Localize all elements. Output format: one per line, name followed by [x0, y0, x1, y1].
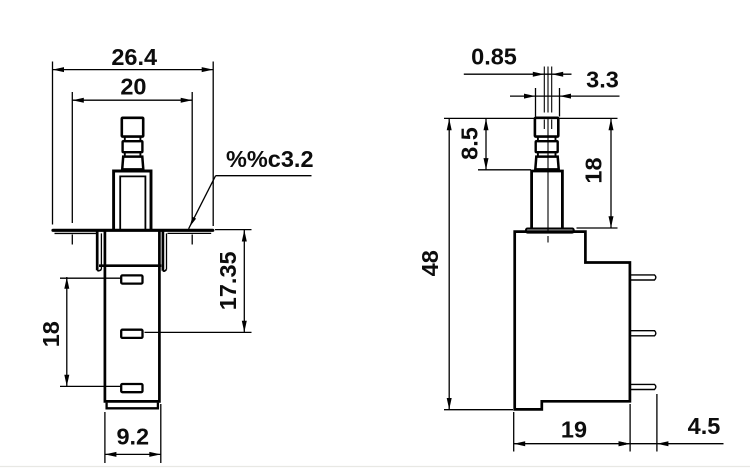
right view: shaft: [532, 171, 563, 229]
svg-text:19: 19: [561, 416, 587, 442]
dimension 17.35: [243, 230, 245, 332]
left view: plunger neck groove 1: [125, 137, 141, 142]
right view: terminal pin 1: [630, 275, 656, 280]
dimension 19: [514, 443, 630, 445]
left view: plunger cap: [122, 118, 143, 137]
dimension 3.3 extension lines: [535, 88, 537, 117]
mounting hole centerline right: [191, 235, 193, 245]
left view: mounting flange top edge: [53, 229, 213, 232]
dimension 48 extension line bottom: [444, 409, 513, 411]
svg-text:4.5: 4.5: [688, 413, 721, 439]
mounting hole centerline left: [71, 235, 73, 245]
left view: guide housing outer: [114, 171, 151, 230]
svg-text:3.3: 3.3: [586, 67, 619, 93]
left view: plunger middle band: [123, 141, 143, 152]
dimension 9.2: [105, 453, 161, 455]
faint page bottom border: [0, 466, 750, 468]
left view: flange sheet underside right: [168, 232, 212, 234]
svg-text:18: 18: [581, 157, 607, 183]
svg-text:17.35: 17.35: [215, 251, 241, 310]
shared top extension line (knob top): [444, 117, 535, 119]
left view: plunger lower stem: [122, 157, 143, 170]
dimension 26.4 extension lines: [52, 62, 54, 225]
left view: vent slot 2: [121, 330, 142, 338]
svg-text:%%c3.2: %%c3.2: [226, 146, 314, 172]
right view: terminal pin 3: [630, 384, 656, 389]
left view: body upper section bottom edge: [99, 264, 161, 267]
dimension 3.3: [510, 95, 620, 97]
right view: vertical centerline: [547, 67, 549, 113]
leader and label %%c3.2 (hole diameter): [189, 176, 216, 229]
svg-text:9.2: 9.2: [116, 424, 149, 450]
dimension 18 (slot pitch): [66, 277, 68, 387]
left view: guide housing inner wall: [120, 176, 145, 230]
dimension 26.4: [53, 69, 214, 71]
svg-text:8.5: 8.5: [457, 127, 483, 160]
svg-text:18: 18: [38, 321, 64, 347]
right view: body outline with step and foot: [515, 232, 630, 410]
left view: body outline: [105, 232, 159, 402]
right view: terminal pin 2: [630, 331, 656, 336]
dimension 20: [72, 99, 192, 101]
left view: vent slot 1: [121, 275, 142, 283]
dimension 4.5 extension line: [656, 394, 658, 452]
right view: plunger neck groove 2: [538, 152, 556, 156]
right view: slot lines / 0.85 extension lines: [543, 67, 545, 113]
right view: plunger neck groove 1: [538, 137, 556, 142]
left view: body bottom cap: [107, 403, 158, 409]
dimension 18 (right view): [610, 119, 612, 229]
right view: plunger middle band: [536, 141, 558, 152]
right view: plunger cap: [535, 118, 558, 137]
dimension 4.5: [630, 443, 723, 445]
dimension 9.2 extension lines: [104, 412, 106, 463]
dimension 18 extension line bottom: [577, 227, 618, 229]
dimension 19 extension lines: [513, 412, 515, 452]
left view: right bracket tab: [162, 231, 165, 271]
dimension 8.5 extension line bottom: [478, 169, 531, 171]
dimension 48: [448, 119, 450, 410]
svg-text:48: 48: [417, 250, 443, 276]
dimension 18 (slot pitch) extension lines: [60, 277, 121, 279]
dimension 20 extension lines: [71, 92, 73, 223]
left view: left bracket tab: [96, 231, 99, 270]
svg-text:26.4: 26.4: [111, 44, 157, 70]
right view: flange plate edge-on: [526, 229, 574, 233]
right view: plunger lower stem: [535, 157, 558, 170]
left view: vent slot 3: [121, 384, 142, 392]
dimension 17.35 extension lines: [215, 229, 252, 231]
dimension 8.5: [485, 119, 487, 170]
left view: flange sheet underside left: [55, 232, 99, 234]
left view: plunger neck groove 2: [125, 152, 141, 156]
dimension 0.85: [464, 73, 572, 75]
svg-text:20: 20: [120, 74, 146, 100]
svg-text:0.85: 0.85: [471, 44, 517, 70]
